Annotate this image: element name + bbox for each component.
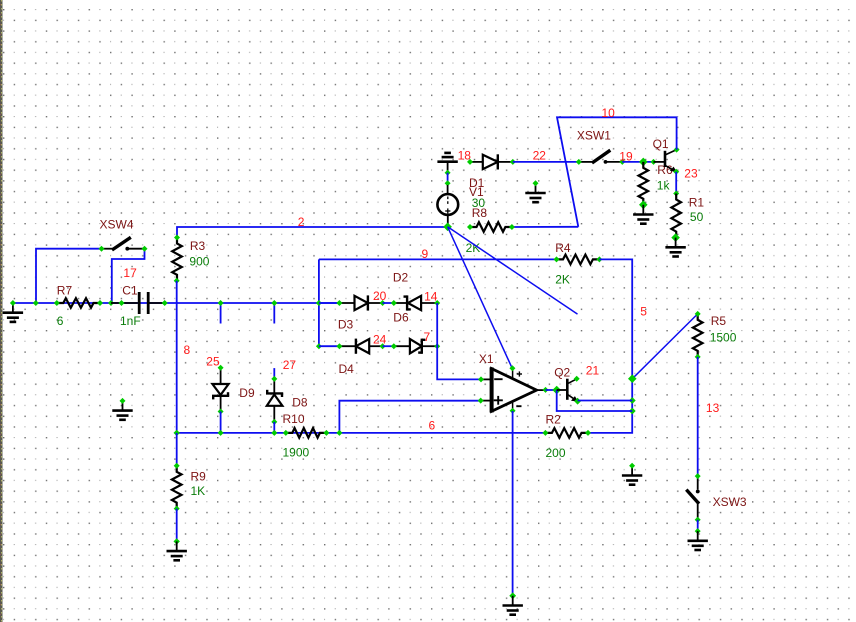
node net2 junction big: [443, 223, 452, 232]
svg-text:27: 27: [283, 358, 297, 372]
svg-text:1k: 1k: [657, 179, 671, 193]
wire bridge right side: [437, 303, 481, 379]
value R7 6: [57, 314, 64, 328]
label R1: [689, 196, 705, 210]
node X1 minus input: [478, 376, 484, 382]
node D8 rail junction: [271, 430, 277, 436]
node floating gnd pin: [533, 180, 539, 186]
node XSW4 left rail junction: [33, 300, 39, 306]
node R7 pin2: [97, 300, 103, 306]
node R3 pin1: [174, 235, 180, 241]
wire X1 vminus to ground: [512, 411, 514, 596]
ground GND floating mid: [525, 183, 545, 202]
svg-text:25: 25: [206, 355, 220, 369]
node D4 pin1: [336, 343, 342, 349]
wire XSW4 right leg: [112, 249, 145, 303]
wire net 19: [622, 161, 653, 163]
value R4 2K: [555, 273, 570, 287]
wire net 13: [697, 357, 699, 476]
node XSW3 pin2: [695, 517, 701, 523]
node R10 pin1: [283, 430, 289, 436]
label D2: [393, 271, 409, 285]
wire V1 top stub: [447, 173, 449, 184]
node bottom ground junction: [509, 592, 516, 599]
wire row2 mid: [383, 345, 394, 347]
svg-text:13: 13: [706, 401, 720, 415]
label XSW3: [713, 495, 747, 509]
wire R9 top lead: [176, 433, 178, 466]
node D8 pin2: [271, 419, 277, 425]
label net 27: [283, 358, 297, 372]
node D9 pin2: [218, 409, 224, 415]
diode D3: [339, 295, 382, 310]
svg-text:23: 23: [684, 167, 698, 181]
node R7 pin1: [54, 300, 60, 306]
label XSW1: [577, 129, 611, 143]
diode D8: [266, 380, 283, 422]
node X1 output pin: [543, 387, 549, 393]
svg-text:2: 2: [298, 215, 305, 229]
node D5 pin2: [434, 343, 440, 349]
label V1 name: [469, 185, 484, 199]
wire net 2: [177, 227, 448, 238]
resistor R9: [172, 466, 182, 509]
node R6 bottom: [639, 201, 648, 210]
ground GND under R1: [665, 238, 685, 257]
svg-text:7: 7: [424, 330, 431, 344]
wire net 8 vertical: [176, 281, 178, 433]
svg-text:XSW3: XSW3: [713, 495, 747, 509]
svg-text:C1: C1: [122, 284, 138, 298]
wire row1 mid: [383, 302, 394, 304]
label R10: [283, 412, 305, 426]
svg-text:50: 50: [690, 210, 704, 224]
wire net 23: [675, 172, 677, 194]
label D9: [239, 386, 255, 400]
node XSW4 right rail junction: [108, 300, 114, 306]
node D6 pin2: [434, 300, 440, 306]
node R5 pin1: [695, 311, 701, 317]
node floating gnd3 pin: [120, 398, 126, 404]
svg-text:R9: R9: [191, 470, 207, 484]
wire net 22: [513, 161, 579, 163]
label R9: [191, 470, 207, 484]
node D8 pin1: [271, 376, 277, 382]
resistor R5: [693, 314, 703, 357]
svg-text:22: 22: [533, 149, 547, 163]
svg-text:D8: D8: [292, 396, 308, 410]
node stub25 rail junction: [218, 300, 224, 306]
node C1 pin1: [119, 300, 125, 306]
label net 25: [206, 355, 220, 369]
svg-text:R10: R10: [283, 412, 305, 426]
value C1 1nF: [120, 314, 141, 328]
node R4 pin2: [596, 256, 602, 262]
node Q1 collector: [674, 147, 680, 153]
wire net 9 top: [319, 258, 557, 260]
ground GND floating below R2 corner: [622, 466, 642, 485]
svg-text:Q1: Q1: [653, 137, 669, 151]
svg-text:XSW1: XSW1: [577, 129, 611, 143]
label net 9: [422, 247, 429, 261]
node floating gnd2 pin: [629, 463, 635, 469]
node R6 top junction: [639, 158, 648, 167]
svg-text:10: 10: [602, 106, 616, 120]
node R2 pin2: [585, 430, 591, 436]
node rail-ground junction: [10, 300, 16, 306]
wire fan dangling: [448, 227, 578, 314]
node D3 pin1: [336, 300, 342, 306]
node R5 pin2: [695, 354, 701, 360]
svg-text:R5: R5: [711, 314, 727, 328]
label net 6: [429, 419, 436, 433]
label net 13: [706, 401, 720, 415]
node XSW3 gnd junction: [695, 528, 701, 534]
node D9 rail junction: [218, 430, 224, 436]
label net 21: [586, 364, 600, 378]
svg-text:D6: D6: [393, 311, 409, 325]
svg-text:R2: R2: [546, 413, 562, 427]
wire R8 right: [512, 226, 578, 228]
label net 8: [184, 343, 191, 357]
svg-text:R7: R7: [57, 284, 73, 298]
node D3 pin2: [380, 300, 386, 306]
value R3 900: [189, 254, 209, 268]
svg-text:14: 14: [424, 290, 438, 304]
label R8: [472, 206, 488, 220]
switch XSW4: [102, 237, 145, 250]
node C1 pin2: [162, 300, 168, 306]
svg-text:30: 30: [472, 196, 486, 210]
svg-text:19: 19: [619, 150, 633, 164]
resistor R4: [557, 255, 600, 265]
svg-text:D9: D9: [239, 386, 255, 400]
wire X1 output: [546, 389, 557, 391]
diode D2 D6 zener: [394, 295, 437, 310]
svg-text:1nF: 1nF: [120, 314, 141, 328]
resistor R2: [545, 428, 588, 438]
label net 5: [640, 305, 647, 319]
wire net 6 bottom rail: [177, 432, 546, 434]
transistor Q1: [654, 150, 677, 172]
wire XSW3 to ground: [697, 520, 699, 531]
wire D9 bottom: [220, 412, 222, 433]
op-amp X1: [481, 367, 546, 412]
ground GND bottom: [503, 596, 523, 615]
node net5 diag junction: [628, 374, 637, 383]
node XSW1 pin2: [619, 159, 625, 165]
node net9 row2 junction: [316, 343, 322, 349]
label D1 name: [469, 176, 485, 190]
label R7: [57, 284, 73, 298]
node R1 bottom: [671, 233, 680, 242]
node X1 plus input: [478, 398, 484, 404]
label net 19: [619, 150, 633, 164]
svg-text:1900: 1900: [283, 446, 310, 460]
label Q2: [554, 366, 570, 380]
wire output down-right: [557, 390, 633, 411]
label net 2: [298, 215, 305, 229]
ground GND floating left: [112, 401, 132, 420]
node Q2 emitter: [574, 398, 581, 405]
label X1: [479, 352, 494, 366]
svg-text:R3: R3: [190, 239, 206, 253]
svg-text:8: 8: [184, 343, 191, 357]
resistor R8: [470, 222, 512, 232]
label Q1: [653, 137, 669, 151]
svg-text:1K: 1K: [191, 484, 206, 498]
ground GND left: [3, 303, 23, 322]
value R9 1K: [191, 484, 206, 498]
switch XSW3: [686, 476, 699, 520]
capacitor C1: [111, 292, 165, 314]
node R3 pin2: [174, 278, 180, 284]
switch XSW1: [579, 150, 623, 164]
svg-text:200: 200: [546, 446, 566, 460]
node D1 pin1: [467, 159, 473, 165]
ground GND under XSW3: [688, 531, 708, 550]
ground GND under R6: [633, 205, 653, 224]
node R9 pin2: [174, 506, 180, 512]
node D9 pin1: [218, 365, 224, 371]
wire D8 bottom: [273, 422, 275, 433]
node R8 pin1: [467, 224, 473, 230]
wire net 27 stub: [273, 303, 275, 324]
value R6 1k: [657, 179, 671, 193]
node V1 top stub a: [445, 170, 451, 176]
diode D4: [339, 339, 382, 354]
label XSW4: [100, 218, 134, 232]
node Q2 collector: [574, 376, 580, 382]
resistor R1: [671, 194, 681, 238]
node net5 emitter junction: [629, 397, 636, 404]
node net9 rail junction: [316, 300, 322, 306]
value R5 1500: [710, 331, 737, 345]
node R10 pin2: [323, 430, 329, 436]
node net5 output junction: [629, 408, 636, 415]
svg-text:1500: 1500: [710, 331, 737, 345]
node XSW1 pin1: [576, 159, 582, 165]
diode D1: [470, 154, 513, 169]
label R4: [555, 241, 571, 255]
node D6 pin1: [391, 300, 397, 306]
value R2 200: [546, 446, 566, 460]
wire diagonal to R5: [632, 314, 697, 379]
label R3: [190, 239, 206, 253]
value R10 1900: [283, 446, 310, 460]
node R9 ground junction: [174, 538, 180, 544]
node XSW4 pin1: [99, 246, 105, 252]
svg-text:D4: D4: [339, 362, 355, 376]
ground GND under R9: [167, 541, 187, 560]
node R4 pin1: [554, 256, 560, 262]
label D3: [338, 318, 354, 332]
node Q1 emitter: [673, 169, 679, 175]
label D6: [393, 311, 409, 325]
wire net 9 left vertical: [318, 259, 320, 346]
svg-text:17: 17: [123, 266, 137, 280]
label R6: [657, 163, 673, 177]
label R2: [546, 413, 562, 427]
node XSW4 pin2: [142, 246, 148, 252]
label net 18: [458, 149, 472, 163]
node R1 top: [673, 191, 679, 197]
svg-text:Q2: Q2: [554, 366, 570, 380]
svg-text:R1: R1: [689, 196, 705, 210]
node X1 vminus pin: [510, 408, 516, 414]
value R1 50: [690, 210, 704, 224]
node rail corner junction: [174, 430, 180, 436]
wire D8 top: [273, 368, 275, 379]
wire bridge row2 lead: [319, 345, 340, 347]
diode D9: [212, 370, 229, 412]
svg-text:24: 24: [373, 333, 387, 347]
wire net 5: [588, 259, 632, 433]
node X1 vplus pin: [509, 365, 515, 371]
resistor R6: [639, 162, 649, 205]
label net 7: [424, 330, 431, 344]
svg-text:6: 6: [429, 419, 436, 433]
node V1 top stub b: [445, 180, 451, 186]
diode D5 zener: [394, 339, 437, 354]
label net 24: [373, 333, 387, 347]
svg-text:D3: D3: [338, 318, 354, 332]
label net 17: [123, 266, 137, 280]
svg-text:5: 5: [640, 305, 647, 319]
svg-text:XSW4: XSW4: [100, 218, 134, 232]
svg-text:20: 20: [373, 289, 387, 303]
label net 10: [602, 106, 616, 120]
svg-text:6: 6: [57, 314, 64, 328]
label R5: [711, 314, 727, 328]
wire fan to opamp power: [448, 227, 513, 368]
resistor R7: [57, 298, 100, 308]
node R2 pin1: [542, 430, 548, 436]
wire net 25 stub: [220, 303, 222, 324]
node XSW3 pin1: [695, 473, 701, 479]
svg-text:R4: R4: [555, 241, 571, 255]
label D4: [339, 362, 355, 376]
wire XSW4 left leg: [36, 249, 102, 303]
wire bridge row1 lead: [319, 302, 340, 304]
label net 14: [424, 290, 438, 304]
svg-text:2K: 2K: [555, 273, 570, 287]
node net6 T junction: [336, 430, 342, 436]
svg-text:21: 21: [586, 364, 600, 378]
wire net 6 riser to opamp: [339, 401, 480, 433]
node output T junction: [552, 386, 561, 395]
label net 22: [533, 149, 547, 163]
label C1: [122, 284, 138, 298]
svg-text:D2: D2: [393, 271, 409, 285]
ground GND inverted above V1: [437, 153, 457, 173]
svg-text:900: 900: [189, 254, 209, 268]
svg-text:9: 9: [422, 247, 429, 261]
label net 23: [684, 167, 698, 181]
wire net 10: [557, 117, 677, 227]
wire R9 ground lead: [176, 509, 178, 542]
resistor R3: [172, 238, 182, 281]
node D1 pin2: [510, 159, 516, 165]
node D5 pin1: [391, 343, 397, 349]
node stub27 rail junction: [271, 300, 277, 306]
wire net 6 upper rail: [13, 302, 340, 304]
label D8: [292, 396, 308, 410]
svg-text:X1: X1: [479, 352, 494, 366]
resistor R10: [286, 428, 327, 438]
wire Q2 emitter to net5: [578, 400, 633, 402]
node Q1 base junction: [651, 159, 657, 165]
transistor Q2: [557, 379, 579, 402]
source V1: [437, 185, 458, 227]
label net 20: [373, 289, 387, 303]
value R8 2K: [466, 241, 481, 255]
value V1 30: [472, 196, 486, 210]
node R9 pin1: [174, 463, 180, 469]
node D4 pin2: [380, 343, 386, 349]
node R8 pin2: [509, 224, 515, 230]
